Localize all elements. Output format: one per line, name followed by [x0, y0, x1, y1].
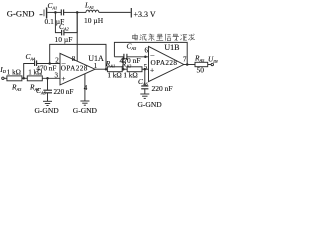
pin4 wire to ground — [84, 74, 86, 101]
svg-text:50: 50 — [197, 66, 205, 75]
svg-text:U1B: U1B — [164, 43, 179, 52]
svg-text:G-GND: G-GND — [73, 106, 98, 115]
svg-text:1 kΩ: 1 kΩ — [107, 72, 121, 80]
G-GND terminal (top left) — [40, 8, 56, 19]
node at pin6 — [144, 56, 147, 59]
resistor R_A3 — [7, 76, 22, 81]
svg-text:UIN: UIN — [208, 55, 219, 64]
node B — [46, 77, 49, 80]
ground stage2 — [140, 94, 149, 98]
svg-text:5: 5 — [144, 63, 148, 71]
svg-text:6: 6 — [145, 46, 149, 54]
svg-text:4: 4 — [84, 84, 88, 92]
svg-text:–: – — [61, 58, 66, 67]
svg-text:LA1: LA1 — [84, 1, 94, 10]
node D — [144, 68, 147, 71]
capacitor C_A2 (parallel loop below) — [55, 12, 77, 35]
svg-text:220 nF: 220 nF — [152, 84, 173, 93]
svg-text:470 nF: 470 nF — [120, 56, 141, 65]
svg-text:3: 3 — [55, 72, 59, 80]
svg-text:G-GND: G-GND — [35, 106, 60, 115]
svg-text:8: 8 — [72, 55, 76, 63]
node J (pin2/feedback junction) — [48, 62, 51, 65]
svg-text:RA3: RA3 — [11, 83, 22, 92]
svg-text:470 nF: 470 nF — [36, 65, 56, 73]
wire — [22, 77, 27, 79]
op-amp U1B triangle — [149, 46, 184, 81]
+3.3V terminal bar — [130, 8, 132, 18]
svg-text:+3.3 V: +3.3 V — [134, 10, 156, 19]
svg-text:RA5: RA5 — [194, 54, 205, 63]
node at output/feedback — [186, 63, 189, 66]
svg-text:7: 7 — [183, 56, 187, 64]
svg-text:ID: ID — [0, 65, 7, 74]
svg-text:1 kΩ: 1 kΩ — [123, 72, 137, 80]
wire — [122, 68, 127, 70]
svg-text:220 nF: 220 nF — [54, 88, 74, 96]
node C — [122, 68, 125, 71]
svg-text:10 µF: 10 µF — [55, 35, 73, 44]
svg-text:10 µH: 10 µH — [84, 16, 104, 25]
node F1 (junction of C_A1/C_A2 left) — [54, 11, 57, 14]
svg-text:G-GND: G-GND — [7, 8, 35, 18]
svg-text:+: + — [150, 66, 154, 75]
wire to pin3 — [42, 77, 60, 79]
svg-text:1 kΩ: 1 kΩ — [7, 68, 21, 76]
svg-text:1: 1 — [94, 62, 98, 70]
feedback rail stage 1 — [50, 44, 106, 69]
svg-text:U1A: U1A — [88, 54, 104, 63]
svg-text:OPA228: OPA228 — [151, 59, 178, 67]
ground (pin 4) — [80, 101, 89, 105]
supply wire to pin 8 — [76, 12, 78, 61]
capacitor C_A5 — [43, 78, 52, 101]
resistor R_A1 — [107, 67, 122, 72]
resistor R_A2 — [127, 67, 142, 72]
svg-text:2: 2 — [55, 56, 59, 64]
svg-text:CA1: CA1 — [48, 1, 58, 10]
svg-text:–: – — [150, 51, 155, 60]
svg-text:G-GND: G-GND — [138, 100, 163, 109]
svg-text:CA4: CA4 — [26, 52, 37, 61]
wire to terminal — [208, 64, 211, 66]
capacitor C_A3 branch — [114, 54, 148, 69]
capacitor C_A6 (220 nF stage2) — [141, 69, 148, 94]
input terminal I_D — [2, 77, 4, 79]
U1A output wire — [95, 68, 107, 70]
node F2 (junction right of C_A1) — [76, 11, 79, 14]
title 电流采集信号滤波 (drawn glyphs) — [133, 34, 195, 41]
svg-text:CA2: CA2 — [59, 22, 70, 31]
svg-text:CA3: CA3 — [127, 42, 138, 51]
svg-text:CA6: CA6 — [138, 77, 149, 86]
svg-text:RA1: RA1 — [105, 59, 115, 68]
feedback rail stage 2 — [114, 42, 187, 64]
svg-text:CA5: CA5 — [36, 86, 47, 95]
ground stage1 (C_A5) — [43, 101, 52, 105]
wire to pin5 — [142, 68, 149, 70]
capacitor C_A1 — [55, 9, 77, 15]
svg-text:+: + — [61, 74, 65, 83]
node at feedback/output — [105, 68, 108, 71]
capacitor C_A4 branch — [24, 60, 60, 78]
resistor R_A5 — [195, 62, 208, 66]
inductor L_A1 — [77, 10, 131, 12]
output terminal U_IN — [211, 63, 213, 65]
op-amp U1A triangle — [60, 53, 95, 85]
node A — [22, 77, 25, 80]
U1B output wire — [184, 64, 195, 66]
resistor R_A4 — [27, 76, 42, 81]
